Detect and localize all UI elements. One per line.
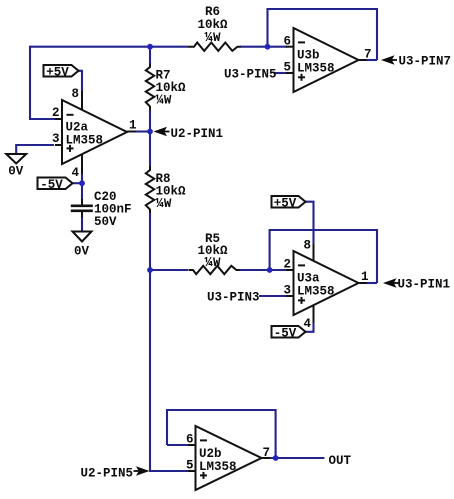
svg-text:¼W: ¼W	[205, 30, 221, 46]
svg-text:¼W: ¼W	[156, 196, 172, 212]
svg-text:U3-PIN7: U3-PIN7	[399, 55, 452, 69]
svg-text:U3-PIN1: U3-PIN1	[398, 278, 451, 292]
svg-text:7: 7	[262, 446, 270, 460]
svg-text:5: 5	[186, 459, 194, 473]
svg-text:¼W: ¼W	[205, 255, 221, 271]
svg-text:U2a: U2a	[66, 120, 89, 134]
svg-text:U3a: U3a	[297, 271, 320, 285]
svg-text:4: 4	[71, 166, 79, 180]
svg-text:LM358: LM358	[297, 61, 335, 75]
svg-text:1: 1	[129, 119, 137, 133]
svg-text:0V: 0V	[74, 245, 90, 259]
svg-text:U3-PIN3: U3-PIN3	[207, 291, 260, 305]
svg-text:LM358: LM358	[199, 460, 237, 474]
svg-text:6: 6	[283, 34, 291, 48]
svg-text:LM358: LM358	[66, 133, 104, 147]
svg-text:50V: 50V	[94, 215, 117, 229]
svg-text:R6: R6	[205, 5, 220, 19]
svg-text:+5V: +5V	[274, 196, 297, 210]
svg-text:U3-PIN5: U3-PIN5	[224, 67, 277, 81]
svg-text:1: 1	[361, 270, 369, 284]
svg-text:7: 7	[364, 48, 372, 62]
svg-text:U3b: U3b	[297, 48, 320, 62]
svg-text:OUT: OUT	[329, 454, 352, 468]
svg-text:2: 2	[283, 258, 291, 272]
svg-text:U2-PIN5: U2-PIN5	[80, 466, 133, 480]
svg-text:6: 6	[186, 433, 194, 447]
svg-text:8: 8	[303, 239, 311, 253]
svg-text:-5V: -5V	[274, 326, 297, 340]
svg-text:0V: 0V	[8, 165, 24, 179]
svg-text:+5V: +5V	[46, 65, 69, 79]
svg-text:2: 2	[52, 106, 60, 120]
svg-text:U2-PIN1: U2-PIN1	[171, 127, 224, 141]
svg-text:5: 5	[283, 60, 291, 74]
svg-text:U2b: U2b	[199, 447, 222, 461]
svg-text:LM358: LM358	[297, 284, 335, 298]
svg-text:¼W: ¼W	[156, 93, 172, 109]
svg-text:8: 8	[71, 87, 79, 101]
svg-text:3: 3	[52, 132, 60, 146]
svg-text:4: 4	[303, 317, 311, 331]
svg-text:3: 3	[283, 284, 291, 298]
svg-text:-5V: -5V	[40, 178, 63, 192]
